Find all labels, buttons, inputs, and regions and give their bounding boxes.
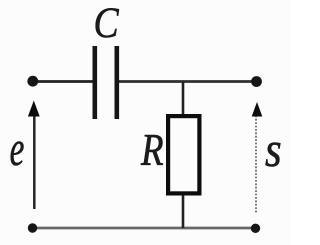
svg-text:R: R [140,125,163,176]
svg-text:s: s [265,123,282,178]
svg-text:C: C [94,0,120,46]
svg-text:e: e [10,123,25,177]
